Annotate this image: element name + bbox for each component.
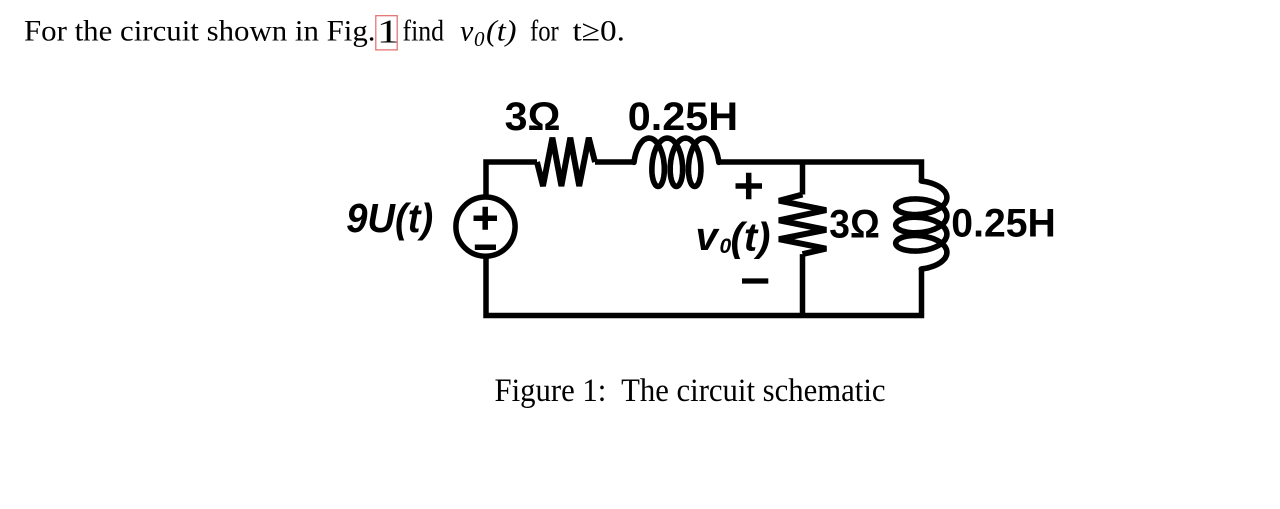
- svg-text:v: v: [696, 215, 721, 259]
- svg-text:(t): (t): [486, 15, 517, 48]
- plus sign of vo(t): [736, 173, 763, 200]
- wire: top from L1 to top-right corner, down to L2: [719, 162, 922, 180]
- inductor L1 0.25H horizontal coil: [634, 138, 719, 186]
- svg-text:Figure 1: The circuit schemat: Figure 1: The circuit schematic: [495, 373, 886, 409]
- svg-text:find: find: [403, 15, 445, 48]
- label vo(t) output voltage: [696, 215, 771, 260]
- wire between R1 and inductor L1: [595, 159, 634, 165]
- svg-text:v: v: [460, 15, 474, 48]
- svg-text:0.25H: 0.25H: [951, 202, 1056, 246]
- resistor R1 3ohm horizontal zigzag: [537, 138, 595, 186]
- svg-text:0: 0: [474, 27, 485, 51]
- wire: from source bottom, bottom rail, up right side to L2: [486, 259, 922, 316]
- hyperref red box around figure number 1: [376, 16, 397, 50]
- svg-text:9U(t): 9U(t): [346, 195, 433, 241]
- minus sign of vo(t): [742, 278, 768, 283]
- problem statement text: [24, 13, 625, 51]
- svg-text:3Ω: 3Ω: [829, 203, 880, 247]
- source plus sign: [474, 207, 498, 230]
- svg-text:1: 1: [377, 13, 399, 50]
- wire: top-left corner from source to resistor R1: [486, 162, 537, 195]
- svg-text:for: for: [530, 15, 559, 48]
- wire: middle branch top stub: [800, 162, 806, 195]
- resistor R2 3ohm vertical zigzag: [779, 195, 826, 255]
- svg-text:t≥0.: t≥0.: [573, 15, 626, 48]
- svg-text:3Ω: 3Ω: [505, 95, 561, 139]
- svg-text:For the circuit shown in Fig.: For the circuit shown in Fig.: [24, 15, 376, 48]
- source minus sign: [475, 245, 496, 251]
- svg-text:0.25H: 0.25H: [628, 95, 738, 139]
- inductor L2 0.25H vertical coil: [896, 181, 947, 269]
- wire: middle branch bottom stub: [800, 254, 806, 315]
- voltage source VS circle: [456, 197, 515, 256]
- svg-text:(t): (t): [731, 216, 771, 260]
